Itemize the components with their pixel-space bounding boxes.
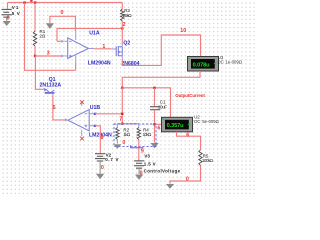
ground arrow under C1 (150, 143, 158, 148)
svg-text:7: 7 (119, 116, 122, 122)
ammeter U2 (162, 117, 193, 132)
LM2904N label (U1B) (89, 133, 112, 139)
U2 label (194, 115, 200, 120)
svg-text:OutputCurrent: OutputCurrent (175, 93, 205, 98)
wire U3 bottom loop back to source net (122, 71, 200, 88)
U1A label (89, 30, 100, 36)
svg-text:0: 0 (7, 16, 10, 22)
node 2 label (123, 22, 126, 28)
U2 settings text (194, 119, 219, 124)
junction source net / C1 rail (121, 87, 123, 89)
transistor Q1 (PNP) (44, 88, 55, 96)
node 8 label (101, 135, 104, 141)
resistor R3 (121, 3, 124, 29)
wire Q2 source to net 10 loop (U3 top) (122, 35, 200, 65)
resistor R2 (116, 124, 119, 144)
U3 label (218, 55, 224, 60)
selected blue wire stub near V3 (131, 145, 144, 148)
node 0 label at V2 (101, 165, 104, 171)
svg-text:DC: DC (218, 60, 224, 65)
R2 labels (123, 128, 130, 137)
wire C1 rail to U2 left terminal (155, 123, 162, 125)
svg-text:2.5kΩ: 2.5kΩ (123, 13, 133, 18)
svg-text:U1A: U1A (89, 30, 100, 36)
junction V1 supply at x24.5 (23, 1, 25, 3)
Q2 label (123, 41, 130, 47)
R1 labels (40, 29, 47, 38)
svg-text:0.7 V: 0.7 V (105, 157, 118, 162)
resistor R5 (199, 150, 202, 166)
resistor R1 (33, 3, 36, 56)
svg-text:0: 0 (61, 10, 64, 16)
svg-text:V1: V1 (12, 5, 19, 10)
svg-text:DC: DC (194, 119, 200, 124)
svg-text:2N1132A: 2N1132A (40, 82, 62, 88)
no-connect X top pin U1B (80, 100, 84, 104)
svg-text:0: 0 (101, 165, 104, 171)
node 6 label below U2 (186, 132, 189, 138)
ground arrow bottom right (166, 184, 174, 189)
ground under V1 (3, 18, 11, 26)
C1 labels (158, 99, 167, 109)
svg-text:0.357u: 0.357u (167, 123, 185, 129)
wire net3 down to Q1 emitter (35, 56, 43, 89)
wire net7 from U1B + input to R2/R4 rail (95, 88, 122, 124)
svg-text:1.5 V: 1.5 V (144, 162, 156, 167)
V2 labels (105, 153, 118, 163)
node 10 label (180, 28, 186, 34)
ammeter U3 (188, 57, 219, 72)
selection dashed box around R2 R4 (114, 124, 156, 147)
V1 value labels (12, 5, 20, 16)
svg-text:5e-009Ω: 5e-009Ω (202, 119, 219, 124)
svg-text:8: 8 (101, 135, 104, 141)
node 9 label at R4/V3 (141, 148, 144, 154)
wire top net 9 from V1+ to R3 (8, 2, 123, 4)
junction net7 (121, 113, 123, 115)
svg-text:0: 0 (186, 176, 189, 182)
svg-text:0: 0 (122, 140, 125, 146)
svg-text:Q2: Q2 (123, 41, 130, 47)
svg-text:LM2904N: LM2904N (88, 61, 111, 67)
wire source net to U2 top (122, 88, 170, 118)
Q1 label (49, 77, 56, 83)
2N1132A label (40, 82, 62, 88)
svg-text:ControlVoltage: ControlVoltage (144, 169, 181, 174)
wire U1A output to Q2 gate (94, 48, 111, 50)
svg-text:10uF: 10uF (158, 104, 167, 109)
svg-text:1e-009Ω: 1e-009Ω (225, 60, 242, 65)
node 5 label (53, 105, 56, 111)
svg-text:0.078u: 0.078u (193, 62, 211, 68)
svg-text:6: 6 (186, 132, 189, 138)
node 0 label at R5 ground (186, 176, 189, 182)
U1B label (90, 105, 101, 111)
U3 settings text (218, 60, 243, 65)
battery V2 (95, 154, 105, 174)
node 0 label at V1 (7, 16, 10, 22)
wire R2/R4 top rail (117, 123, 138, 125)
R3 labels (123, 8, 133, 18)
transistor Q2 (NMOS) (111, 44, 122, 60)
op-amp U1B (mirrored) (68, 102, 96, 136)
wire net2 feedback to U1A + input (57, 28, 122, 43)
wire U1A V- to ground arrow (50, 16, 76, 31)
V3 labels (144, 153, 156, 166)
battery V3 (134, 161, 144, 174)
wire net3 to U1A inverting input (35, 54, 64, 57)
svg-text:V3: V3 (144, 153, 150, 158)
2N6804 label (121, 61, 139, 67)
capacitor C1 (150, 88, 160, 143)
ground arrow under V3 (135, 175, 143, 180)
junction net7 top of divider (121, 123, 123, 125)
ground arrow top (net 0) (46, 23, 54, 29)
ground arrow under R2 (113, 144, 121, 149)
wire U1B - input to V2 (95, 126, 100, 154)
R4 labels (143, 128, 152, 137)
wire V+ rail down x24.5 and across y70.3 to U1A V+ pin (25, 3, 76, 71)
R5 labels (202, 153, 214, 163)
node 3 junction dot at R1 bottom (34, 55, 36, 57)
ground arrow under V2 (96, 174, 104, 179)
svg-text:5 V: 5 V (12, 11, 20, 16)
wire node2 down to Q2 drain (121, 28, 123, 44)
node 1 label (102, 44, 105, 50)
battery V1 (2, 3, 12, 18)
junction R1 top at x35 (34, 1, 36, 3)
LM2904N label (U1A) (88, 61, 111, 67)
node 6 label left of U2 (157, 126, 160, 132)
wire Q1 collector to U1B output (53, 95, 68, 121)
node 3 label (47, 51, 50, 57)
svg-text:5: 5 (53, 105, 56, 111)
junction C1 tap (153, 87, 155, 89)
node 0 label top ground (61, 10, 64, 16)
no-connect X bottom pin U1B (80, 137, 84, 141)
svg-text:2: 2 (123, 22, 126, 28)
svg-text:6: 6 (157, 126, 160, 132)
svg-text:10: 10 (180, 28, 186, 34)
svg-text:2Ω: 2Ω (40, 33, 47, 38)
svg-text:U1B: U1B (90, 105, 101, 111)
wire U2 bottom to R5 (177, 132, 201, 150)
node 9 label (cut off at top edge) (30, 0, 32, 2)
svg-text:100kΩ: 100kΩ (202, 158, 214, 163)
node 0 label at V3 (140, 171, 143, 177)
junction node 2 (121, 27, 123, 29)
node 0 label at R2 ground (122, 140, 125, 146)
op-amp U1A (64, 31, 94, 64)
ControlVoltage label (144, 169, 181, 174)
wire R5 bottom to ground (170, 166, 201, 184)
node 7 label (119, 116, 122, 122)
svg-text:10kΩ: 10kΩ (143, 132, 152, 137)
junction U2 left wire (153, 123, 155, 125)
resistor R4 (137, 124, 140, 161)
svg-text:1kΩ: 1kΩ (123, 132, 130, 137)
OutputCurrent label (175, 93, 205, 98)
